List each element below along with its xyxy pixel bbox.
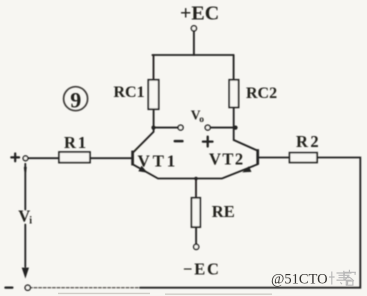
svg-text:VT1: VT1 <box>138 151 179 170</box>
svg-text:R2: R2 <box>296 132 321 151</box>
svg-text:VT2: VT2 <box>209 150 245 169</box>
svg-text:RE: RE <box>212 202 235 221</box>
svg-text:RC1: RC1 <box>114 84 145 101</box>
svg-text:+EC: +EC <box>180 2 219 24</box>
svg-text:i: i <box>29 216 32 227</box>
svg-text:RC2: RC2 <box>246 85 277 102</box>
svg-text:R1: R1 <box>64 133 88 152</box>
svg-text:9: 9 <box>70 87 81 112</box>
svg-text:−EC: −EC <box>183 260 221 279</box>
svg-text:@51CTO: @51CTO <box>271 272 328 288</box>
svg-text:o: o <box>199 115 204 125</box>
